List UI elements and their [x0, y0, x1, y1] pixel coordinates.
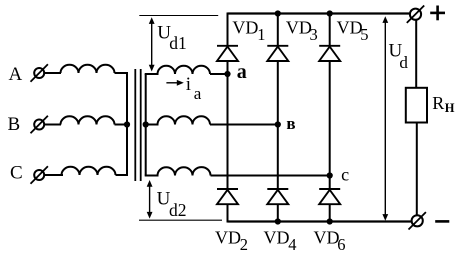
svg-text:Н: Н [445, 101, 455, 115]
diode VD2 [217, 189, 238, 204]
svg-text:a: a [194, 84, 202, 103]
label VD5 [337, 18, 369, 44]
transformer core line 1 [134, 69, 136, 181]
secondary winding b (inductor) [158, 116, 211, 124]
svg-text:1: 1 [257, 25, 265, 44]
Ud1 reference line [139, 15, 218, 17]
svg-text:d: d [399, 53, 408, 72]
svg-text:d2: d2 [169, 200, 187, 220]
svg-text:B: B [8, 114, 21, 135]
wire node b to VD4 cathode [277, 125, 279, 190]
svg-text:VD: VD [215, 228, 241, 248]
terminal A [31, 64, 48, 81]
wire load to negative terminal [416, 123, 418, 215]
wire secondary bus to winding c [145, 175, 159, 177]
current arrow i_a [166, 80, 183, 86]
wire node c to VD6 cathode [329, 176, 331, 190]
Ud2 measuring arrow [147, 180, 153, 219]
wire secondary bus to winding b [145, 124, 159, 126]
wire terminal B to winding [44, 124, 61, 126]
label i_a [186, 74, 202, 103]
transformer core line 2 [140, 69, 142, 181]
minus sign [435, 220, 449, 223]
primary winding A (inductor) [61, 65, 115, 73]
svg-text:a: a [237, 61, 247, 83]
terminal C [31, 166, 48, 183]
wire terminal C to winding [44, 174, 63, 176]
svg-text:C: C [10, 163, 23, 184]
wire winding a to node a [210, 73, 228, 75]
load resistor R_H [406, 88, 427, 123]
wire node a to VD2 cathode [227, 74, 229, 189]
primary winding B (inductor) [61, 116, 115, 124]
junction top bus / VD5 [327, 10, 333, 16]
junction bottom bus / VD4 [275, 218, 281, 224]
wire secondary bus to winding a [145, 73, 159, 75]
svg-text:A: A [9, 64, 23, 85]
wire winding A to primary star bus [115, 72, 129, 74]
junction secondary star point [143, 121, 149, 127]
junction bottom bus / VD6 [327, 218, 333, 224]
svg-text:5: 5 [360, 25, 368, 44]
label Ud [389, 40, 409, 72]
wire top bus to VD5 cathode [329, 14, 331, 46]
Ud measuring arrow [382, 16, 388, 221]
svg-text:d1: d1 [169, 33, 187, 53]
label VD6 [314, 228, 346, 255]
negative dc bus (bottom) [228, 220, 412, 222]
svg-text:i: i [186, 74, 191, 95]
svg-text:4: 4 [288, 235, 296, 254]
wire VD1 anode to node a [227, 61, 229, 74]
wire winding C to primary star bus [116, 174, 129, 176]
svg-text:2: 2 [240, 235, 248, 254]
svg-text:VD: VD [286, 18, 312, 38]
label Ud1 [157, 23, 186, 53]
label VD2 [215, 228, 248, 255]
diode VD6 [319, 189, 340, 204]
wire terminal A to winding [44, 72, 61, 74]
positive dc bus (top) [228, 12, 410, 14]
label R_H [432, 93, 454, 115]
wire winding b to node b [210, 124, 278, 126]
Ud2 reference line [139, 219, 222, 221]
junction primary star point [124, 121, 130, 127]
primary star bus [126, 73, 128, 176]
wire VD4 anode to bottom bus [277, 204, 279, 222]
wire top bus to VD1 cathode [227, 13, 229, 46]
secondary star bus [145, 74, 147, 176]
secondary winding c (inductor) [158, 167, 211, 175]
label VD1 [232, 18, 265, 44]
label VD4 [264, 228, 297, 255]
wire positive terminal to load [415, 20, 417, 88]
label VD3 [286, 18, 318, 44]
svg-text:c: c [341, 164, 349, 184]
svg-text:6: 6 [337, 235, 345, 254]
node a [224, 71, 230, 77]
label Ud2 [157, 189, 187, 221]
node b [275, 121, 281, 127]
wire top bus to VD3 cathode [277, 14, 279, 46]
wire winding B to primary star bus [115, 124, 128, 126]
negative output terminal [409, 212, 426, 229]
node c [327, 172, 333, 178]
plus sign [430, 6, 445, 21]
svg-text:VD: VD [264, 228, 290, 248]
svg-text:R: R [432, 93, 444, 113]
wire VD3 anode to node b [277, 61, 279, 125]
terminal B [31, 116, 48, 133]
positive output terminal [407, 6, 424, 23]
svg-text:VD: VD [314, 228, 340, 248]
wire VD6 anode to bottom bus [329, 204, 331, 222]
wire VD5 anode to node c [329, 61, 331, 176]
secondary winding a (inductor) [158, 66, 211, 74]
diode VD1 [217, 46, 238, 61]
wire VD2 anode to bottom bus [227, 204, 229, 222]
wire winding c to node c [211, 175, 330, 177]
diode VD3 [267, 46, 288, 61]
svg-text:VD: VD [337, 18, 363, 38]
junction top bus / VD3 [275, 10, 281, 16]
primary winding C (inductor) [62, 167, 116, 175]
svg-text:VD: VD [232, 18, 258, 38]
diode VD5 [319, 46, 340, 61]
Ud1 measuring arrow [149, 17, 155, 71]
svg-text:в: в [286, 114, 295, 133]
diode VD4 [267, 189, 288, 204]
svg-text:3: 3 [310, 25, 318, 44]
